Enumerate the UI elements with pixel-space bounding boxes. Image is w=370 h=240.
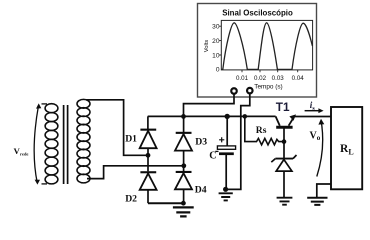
svg-text:10: 10 bbox=[212, 52, 220, 59]
svg-text:D3: D3 bbox=[195, 136, 207, 147]
zener diode bbox=[275, 158, 293, 160]
diode D4 bbox=[183, 166, 185, 171]
svg-text:0.03: 0.03 bbox=[272, 75, 285, 82]
capacitor C bbox=[226, 116, 228, 146]
waveform trace bbox=[222, 23, 313, 70]
node: bottom rail junction bbox=[181, 201, 186, 206]
emitter output wire bbox=[294, 116, 331, 118]
svg-text:0.02: 0.02 bbox=[254, 75, 267, 82]
svg-text:Volts: Volts bbox=[204, 40, 210, 53]
load resistor RL box bbox=[331, 107, 362, 189]
svg-text:0: 0 bbox=[216, 66, 220, 73]
diode D1 bbox=[147, 116, 149, 129]
wire: secondary top to bridge left mid node bbox=[86, 100, 148, 156]
Vo arrow bbox=[317, 122, 323, 177]
node: rail junction at Rs bbox=[243, 114, 248, 119]
ground (bridge) bbox=[173, 207, 194, 216]
wire: secondary bottom to bridge right mid node bbox=[87, 166, 184, 179]
capacitor minus dash bbox=[215, 150, 218, 152]
svg-text:30: 30 bbox=[212, 24, 220, 31]
svg-text:D4: D4 bbox=[195, 185, 207, 196]
node: base / zener junction bbox=[282, 139, 287, 144]
Vrede arrow bbox=[34, 106, 38, 183]
wire: right probe to ground node bbox=[226, 94, 250, 189]
transformer core bbox=[64, 105, 68, 184]
axis tick marks bbox=[219, 26, 298, 72]
node: rail junction at D3 bbox=[181, 114, 186, 119]
bridge bottom rail wire bbox=[148, 202, 184, 204]
oscilloscope box bbox=[198, 4, 317, 98]
ground (RL) bbox=[307, 198, 327, 205]
diode D3 bbox=[183, 116, 185, 132]
plot frame bbox=[221, 20, 312, 70]
top rail wire bbox=[148, 115, 276, 117]
svg-text:20: 20 bbox=[212, 38, 220, 45]
ground (capacitor) bbox=[219, 193, 233, 200]
svg-text:0.01: 0.01 bbox=[236, 75, 249, 82]
svg-text:0.04: 0.04 bbox=[292, 75, 305, 82]
svg-text:T1: T1 bbox=[276, 100, 290, 114]
primary bottom lead bbox=[42, 183, 48, 185]
node: bridge left mid junction bbox=[146, 153, 151, 158]
is current arrow bbox=[305, 110, 321, 112]
resistor Rs bbox=[245, 116, 284, 144]
transformer primary winding bbox=[45, 104, 58, 184]
svg-text:C: C bbox=[209, 151, 216, 162]
transformer secondary winding bbox=[77, 99, 90, 183]
svg-text:D2: D2 bbox=[125, 193, 137, 204]
capacitor plus sign bbox=[219, 137, 224, 142]
transistor T1 bbox=[276, 116, 280, 125]
svg-text:D1: D1 bbox=[125, 134, 137, 145]
svg-text:Rs: Rs bbox=[256, 125, 267, 136]
ground (zener) bbox=[277, 198, 293, 205]
node: rail junction at capacitor bbox=[225, 114, 230, 119]
probe terminal right bbox=[247, 88, 253, 94]
probe terminal left bbox=[231, 88, 237, 94]
node: ground junction below capacitor bbox=[223, 187, 228, 192]
diode D2 bbox=[147, 155, 149, 171]
svg-text:Sinal Osciloscópio: Sinal Osciloscópio bbox=[222, 9, 293, 18]
svg-text:Tempo (s): Tempo (s) bbox=[254, 84, 282, 91]
RL bottom wire bbox=[317, 184, 331, 198]
wire: left probe to rail bbox=[184, 94, 235, 116]
primary top lead bbox=[42, 103, 48, 105]
node: bridge right mid junction bbox=[181, 163, 186, 168]
